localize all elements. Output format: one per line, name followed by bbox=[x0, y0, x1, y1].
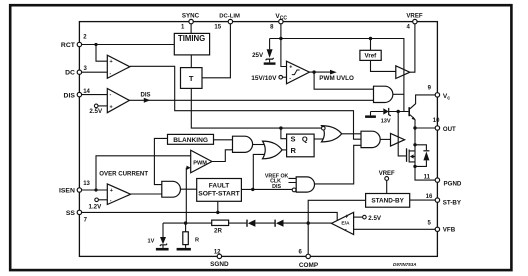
svg-text:E/A: E/A bbox=[341, 221, 350, 227]
svg-text:1V: 1V bbox=[147, 239, 154, 245]
svg-text:16: 16 bbox=[426, 194, 433, 200]
svg-text:SS: SS bbox=[66, 210, 76, 217]
svg-text:2R: 2R bbox=[214, 228, 222, 235]
svg-text:TIMING: TIMING bbox=[178, 34, 205, 43]
svg-text:SGND: SGND bbox=[210, 261, 229, 268]
svg-text:11: 11 bbox=[424, 175, 431, 181]
svg-text:15: 15 bbox=[214, 24, 221, 30]
svg-text:D97IN753A: D97IN753A bbox=[393, 262, 417, 267]
svg-text:BLANKING: BLANKING bbox=[173, 137, 208, 144]
svg-text:OVER CURRENT: OVER CURRENT bbox=[99, 170, 148, 177]
svg-text:ST-BY: ST-BY bbox=[443, 199, 462, 206]
svg-text:OUT: OUT bbox=[443, 126, 456, 133]
svg-text:-: - bbox=[110, 92, 112, 98]
svg-text:-: - bbox=[110, 198, 112, 204]
svg-text:PGND: PGND bbox=[444, 180, 462, 187]
svg-text:13: 13 bbox=[83, 181, 90, 187]
svg-text:RCT: RCT bbox=[61, 42, 76, 49]
svg-text:VFB: VFB bbox=[443, 226, 456, 233]
svg-text:S: S bbox=[291, 135, 296, 144]
svg-text:DC-LIM: DC-LIM bbox=[219, 13, 240, 19]
svg-text:STAND-BY: STAND-BY bbox=[371, 198, 404, 205]
svg-text:VREF: VREF bbox=[379, 171, 395, 177]
svg-text:SOFT-START: SOFT-START bbox=[198, 191, 240, 198]
svg-text:COMP: COMP bbox=[299, 262, 319, 269]
svg-text:FAULT: FAULT bbox=[209, 183, 229, 190]
svg-text:DC: DC bbox=[65, 70, 75, 77]
svg-text:PWM: PWM bbox=[193, 160, 207, 166]
svg-text:-: - bbox=[110, 71, 112, 77]
svg-text:2.5V: 2.5V bbox=[89, 108, 103, 115]
svg-text:1.2V: 1.2V bbox=[89, 204, 103, 211]
svg-text:15V/10V: 15V/10V bbox=[251, 75, 277, 82]
svg-text:14: 14 bbox=[83, 89, 90, 95]
svg-text:25V: 25V bbox=[252, 52, 264, 59]
svg-text:DIS: DIS bbox=[141, 93, 151, 99]
svg-text:+: + bbox=[345, 215, 349, 221]
svg-text:R: R bbox=[291, 146, 297, 155]
svg-text:+: + bbox=[110, 59, 113, 65]
svg-text:ISEN: ISEN bbox=[59, 188, 75, 195]
svg-text:2.5V: 2.5V bbox=[368, 215, 382, 222]
svg-text:+: + bbox=[289, 65, 292, 71]
svg-text:13V: 13V bbox=[381, 119, 391, 125]
svg-text:+: + bbox=[110, 104, 113, 110]
svg-text:R: R bbox=[195, 238, 199, 244]
svg-text:VREF: VREF bbox=[406, 12, 423, 19]
svg-text:12: 12 bbox=[214, 250, 221, 256]
svg-text:DIS: DIS bbox=[64, 92, 76, 99]
svg-text:T: T bbox=[189, 74, 194, 83]
svg-text:PWM UVLO: PWM UVLO bbox=[319, 75, 354, 82]
svg-text:Q: Q bbox=[302, 135, 308, 144]
svg-text:+: + bbox=[110, 188, 113, 194]
svg-text:-: - bbox=[345, 228, 347, 234]
svg-text:Vref: Vref bbox=[365, 53, 378, 60]
svg-text:DIS: DIS bbox=[272, 184, 281, 190]
svg-text:10: 10 bbox=[433, 118, 440, 124]
svg-text:-: - bbox=[289, 75, 291, 81]
svg-text:SYNC: SYNC bbox=[182, 12, 200, 19]
